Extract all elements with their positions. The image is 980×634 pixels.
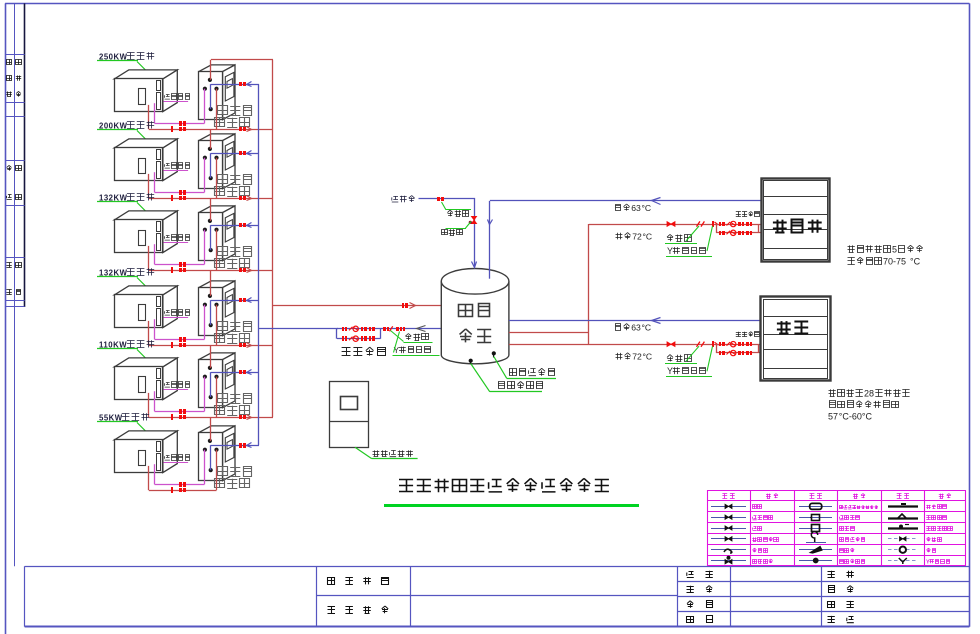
svg-text:72: 72 (632, 232, 642, 242)
valve cold feed unit 1 (239, 82, 246, 86)
pipe cold feed unit 5 (211, 372, 259, 374)
heat recovery label unit 1 (215, 106, 252, 128)
pump label oven (736, 332, 760, 337)
svg-text:63: 63 (631, 203, 641, 213)
ports unit 4 (203, 294, 219, 327)
compressor 200KW unit 2 (114, 139, 177, 181)
svg-text:Y: Y (667, 366, 673, 376)
legend symbol col5 row3 (888, 525, 918, 529)
pump label (342, 347, 386, 356)
arrow return oven (652, 318, 661, 324)
legend symbol col3 row1 (799, 503, 832, 509)
pipe compressor red drop unit 6 (148, 466, 150, 490)
supply temp label mwj (616, 232, 653, 242)
svg-text:57: 57 (828, 412, 838, 422)
pipe compressor red drop unit 5 (148, 393, 150, 417)
pipe makeup water (419, 199, 475, 267)
arrow cold feed unit 3 (247, 223, 252, 228)
arrow hot trunk unit 3 (247, 268, 252, 273)
legend symbol col1 row6 (711, 556, 746, 564)
valve hot trunk unit 4 (239, 343, 246, 347)
manual valve pump line (383, 326, 405, 331)
pipe hot line unit 4 (149, 345, 273, 347)
pipe cold drop unit 2 (210, 153, 212, 178)
valve oil line unit 2 (179, 190, 186, 195)
legend symbol col3 row5 (799, 546, 832, 553)
pipe oil riser unit 4 (204, 305, 206, 340)
legend name col4 row6 (840, 559, 865, 564)
sidebar text cell B (7, 165, 22, 199)
manual valve oven (697, 342, 705, 347)
pump lower oven (719, 350, 752, 355)
title block label 校对 (687, 601, 713, 608)
heat recovery unit 1 (199, 65, 236, 120)
pump lower mwj (719, 230, 752, 235)
arrow cold feed unit 5 (247, 370, 252, 375)
legend name col6 row4 (927, 537, 942, 541)
pipe cold feed unit 3 (211, 225, 259, 227)
legend symbol col5 row5 (888, 547, 918, 553)
moulding machine label (773, 220, 822, 233)
legend symbol col5 row2 (888, 514, 918, 519)
pipe compressor oil drop unit 5 (154, 391, 156, 411)
pipe cold trunk vertical (258, 84, 260, 445)
heat recovery label unit 3 (215, 247, 252, 269)
pipe hot line unit 5 (149, 417, 273, 419)
oven note (828, 389, 910, 422)
title block label 比例 (828, 601, 854, 608)
supply temp label oven (616, 352, 653, 362)
svg-text:28: 28 (864, 389, 874, 399)
compressor 250KW unit 1 (114, 70, 177, 112)
pipe hot drop unit 6 (216, 450, 218, 490)
heat recovery label unit 4 (215, 322, 252, 344)
pipe hot riser unit 2 (210, 129, 212, 149)
pipe oil line unit 4 (155, 339, 205, 341)
return temp label mwj (615, 203, 651, 213)
y strainer label oven (666, 346, 713, 376)
title block label 页数 (828, 586, 853, 593)
valve hot line unit 2 (171, 195, 186, 201)
pipe pump loop mwj (716, 224, 761, 233)
pipe hot trunk top corner (211, 59, 273, 61)
pipe return mwj (490, 200, 761, 202)
pipe oil line unit 6 (155, 484, 205, 486)
valve cold feed unit 2 (239, 151, 246, 155)
pipe pump suction (259, 328, 338, 330)
control cabinet label (355, 447, 418, 458)
legend symbol col1 row3 (711, 526, 746, 530)
compressor label 132KW unit 4 (97, 268, 154, 290)
main title underline (384, 504, 639, 507)
heat recovery label unit 2 (215, 175, 252, 197)
ports unit 5 (203, 366, 219, 399)
valve cold feed unit 3 (239, 223, 246, 227)
pipe cold feed unit 2 (211, 153, 259, 155)
legend name col4 row5 (840, 548, 855, 552)
pipe oil riser unit 2 (204, 158, 206, 193)
pipe oil line unit 2 (155, 192, 205, 194)
svg-text:°C: °C (643, 232, 653, 242)
pipe cold feed unit 6 (211, 445, 259, 447)
pipe compressor red drop unit 4 (148, 321, 150, 345)
valve oil line unit 4 (179, 337, 186, 342)
legend name col2 row3 (753, 527, 763, 531)
valve cold feed unit 5 (239, 370, 246, 374)
y strainer label mwj (666, 226, 713, 257)
compressor label 200KW unit 2 (97, 121, 154, 143)
svg-text:°C: °C (910, 257, 921, 267)
legend name col6 row2 (926, 516, 946, 520)
pump upper mwj (719, 221, 752, 226)
legend name col6 row1 (926, 505, 946, 510)
pipe hot to tank (273, 305, 441, 307)
sidebar text cell C (6, 263, 21, 295)
svg-text:°C: °C (642, 203, 652, 213)
pipe oil riser unit 3 (204, 230, 206, 265)
pipe compressor red drop unit 1 (148, 105, 150, 129)
legend symbol col5 row4 (888, 537, 918, 541)
title block label 绘图 (687, 571, 713, 578)
temperature sensor (469, 359, 542, 392)
pipe compressor oil drop unit 1 (154, 103, 156, 123)
main title (399, 478, 609, 492)
legend name col4 row4 (839, 537, 865, 541)
manual valve label near tank (391, 331, 433, 343)
legend symbol col3 row4 (806, 532, 826, 543)
temperature sensor label (498, 382, 543, 389)
valve hot trunk unit 1 (239, 127, 246, 131)
pipe pump to tank (380, 328, 441, 330)
heat recovery label unit 5 (215, 394, 252, 416)
pipe compressor oil drop unit 3 (154, 244, 156, 264)
pipe compressor oil drop unit 6 (154, 464, 156, 484)
y strainer label near tank (393, 332, 440, 356)
valve supply oven (667, 342, 675, 347)
pipe oil riser unit 5 (204, 377, 206, 412)
pipe hot line unit 1 (149, 129, 273, 131)
heat recovery unit 5 (199, 353, 236, 408)
legend name col6 row5 (927, 548, 936, 552)
valve cold feed unit 4 (239, 298, 246, 302)
pump circulation upper (342, 326, 375, 331)
legend header (722, 494, 951, 499)
pipe cold feed unit 4 (211, 300, 259, 302)
pipe oil riser unit 1 (204, 89, 206, 124)
pipe supply tank to mwj (509, 332, 589, 334)
pipe return drop into tank (489, 201, 491, 279)
arrow pump to tank (417, 326, 426, 332)
valve makeup manual (437, 197, 444, 201)
legend symbol col1 row2 (711, 515, 746, 519)
arrow cold feed unit 1 (247, 82, 252, 87)
manual valve mwj (697, 221, 705, 226)
legend name col2 row4 (752, 537, 778, 541)
valve makeup electric (469, 216, 477, 224)
pipe cold drop unit 3 (210, 225, 212, 250)
sidebar text cell A (6, 60, 21, 97)
ports unit 1 (203, 78, 219, 111)
title block label 图号 (828, 571, 854, 578)
pipe compressor oil drop unit 2 (154, 172, 156, 192)
svg-text:Y: Y (926, 559, 930, 565)
arrow hot trunk unit 2 (247, 196, 252, 201)
valve hot trunk unit 3 (239, 268, 246, 272)
pipe oil riser unit 6 (204, 450, 206, 485)
legend name col2 row5 (753, 548, 768, 552)
valve hot line unit 4 (171, 342, 186, 348)
pipe compressor oil drop unit 4 (154, 319, 156, 339)
pipe hot drop unit 5 (216, 377, 218, 417)
oil cooler label unit 3 (163, 235, 189, 243)
legend symbol col1 row5 (711, 549, 746, 553)
title block label 审核 (687, 616, 713, 623)
manual valve label oven (665, 346, 699, 363)
ports unit 6 (203, 439, 219, 472)
pipe oil line unit 1 (155, 123, 205, 125)
legend symbol col1 row1 (711, 504, 746, 508)
pipe cold drop unit 6 (210, 445, 212, 470)
pipe hot trunk vertical (272, 60, 274, 417)
heat recovery label unit 6 (215, 467, 252, 489)
oven label (777, 321, 808, 334)
valve oil line unit 5 (179, 409, 186, 414)
sidebar dark line (24, 3, 26, 626)
svg-text:5: 5 (892, 245, 897, 255)
pipe supply mwj (589, 224, 716, 226)
valve hot trunk unit 5 (239, 415, 246, 419)
y strainer mwj (712, 221, 719, 227)
pipe supply riser mwj (588, 224, 590, 344)
pipe hot drop unit 4 (216, 305, 218, 345)
svg-text:°C: °C (643, 352, 653, 362)
pipe pump loop oven (716, 344, 761, 353)
pipe hot drop unit 2 (216, 158, 218, 198)
legend name col2 row6 (752, 559, 772, 564)
pipe oil line unit 3 (155, 264, 205, 266)
compressor label 110KW unit 5 (97, 340, 154, 362)
arrow makeup into tank (472, 262, 477, 268)
compressor 132KW unit 4 (114, 286, 177, 328)
title block label tuzhimingcheng (328, 606, 389, 614)
svg-text:63: 63 (631, 323, 641, 333)
heat recovery unit 2 (199, 134, 236, 189)
ports unit 3 (203, 219, 219, 252)
title block grid (25, 566, 970, 626)
level transmitter label (509, 368, 554, 375)
heat recovery unit 6 (199, 426, 236, 481)
oven box (761, 297, 831, 381)
svg-text:72: 72 (632, 352, 642, 362)
manual valve label mwj (665, 226, 699, 244)
pipe hot line unit 6 (149, 490, 217, 492)
compressor 132KW unit 3 (114, 211, 177, 253)
pump circulation lower (342, 336, 375, 341)
arrow hot trunk unit 4 (247, 343, 252, 348)
arrow cold feed unit 6 (247, 443, 252, 448)
valve hot to tank (402, 303, 408, 308)
legend symbol col5 row6 (888, 558, 918, 564)
pipe pump loop (337, 329, 381, 339)
oil cooler label unit 1 (163, 94, 189, 102)
tank label (459, 304, 492, 343)
valve oil line unit 1 (179, 121, 186, 126)
makeup water label (392, 196, 415, 203)
pipe supply oven (509, 344, 716, 346)
ports unit 2 (203, 147, 219, 180)
moulding machine note (848, 245, 923, 267)
manual valve label makeup (442, 202, 472, 217)
return temp label oven (615, 323, 651, 333)
legend symbol col3 row2 (799, 515, 832, 521)
valve hot line unit 6 (171, 487, 186, 493)
svg-text:°C: °C (642, 323, 652, 333)
pipe hot riser unit 5 (210, 345, 212, 368)
pipe cold drop unit 4 (210, 300, 212, 325)
legend name col4 row2 (840, 516, 860, 520)
arrow return mwj (652, 198, 661, 205)
pipe hot drop unit 1 (216, 89, 218, 129)
pipe cold drop unit 5 (210, 372, 212, 397)
pipe hot riser unit 1 (210, 60, 212, 80)
compressor 55KW unit 6 (114, 431, 177, 473)
control cabinet (329, 382, 369, 448)
arrow cold feed unit 4 (247, 298, 252, 303)
pipe hot riser unit 6 (210, 417, 212, 441)
svg-text:Y: Y (667, 246, 673, 256)
tank baowen shuixiang (441, 269, 509, 364)
arrow hot trunk unit 1 (247, 127, 252, 132)
pipe hot line unit 3 (149, 270, 273, 272)
legend name col4 row1 (839, 506, 878, 510)
title block label jianshedanwei (328, 577, 389, 584)
compressor label 132KW unit 3 (97, 193, 154, 215)
pipe cold feed unit 1 (211, 84, 259, 86)
legend name col2 row1 (752, 505, 762, 509)
oil cooler label unit 4 (163, 310, 189, 318)
y strainer oven (712, 341, 719, 347)
pipe cold drop unit 1 (210, 84, 212, 109)
electric valve label (441, 222, 471, 236)
pump label mwj (736, 212, 760, 217)
moulding machine box (762, 179, 830, 262)
title block label 日期 (828, 616, 854, 623)
legend symbol col3 row6 (799, 558, 832, 564)
sidebar inner line (14, 3, 16, 566)
oil cooler label unit 5 (163, 382, 189, 390)
pipe compressor red drop unit 3 (148, 246, 150, 270)
pump upper oven (719, 342, 752, 347)
valve supply mwj (667, 222, 675, 227)
pipe hot riser unit 3 (210, 198, 212, 221)
valve cold feed unit 6 (239, 443, 246, 448)
pipe compressor red drop unit 2 (148, 174, 150, 198)
valve hot trunk unit 2 (239, 196, 246, 200)
title block label 设计 (687, 586, 713, 593)
pipe hot riser unit 4 (210, 270, 212, 296)
legend symbol col3 row3 (799, 525, 832, 532)
level transmitter (492, 351, 556, 378)
pipe oil line unit 5 (155, 411, 205, 413)
compressor 110KW unit 5 (114, 358, 177, 400)
heat recovery unit 3 (199, 206, 236, 261)
compressor label 55KW unit 6 (97, 413, 150, 435)
legend name col2 row2 (753, 516, 773, 520)
pipe hot drop unit 3 (216, 230, 218, 270)
sidebar cell lines (5, 55, 25, 307)
arrow hot to tank (410, 303, 416, 309)
legend name col6 row6 (926, 559, 950, 565)
compressor label 250KW unit 1 (97, 52, 154, 74)
valve oil line unit 3 (179, 262, 186, 267)
svg-text:70-75: 70-75 (883, 257, 906, 267)
valve hot line unit 1 (171, 126, 186, 132)
legend symbol col5 row1 (888, 503, 918, 507)
legend table grid (707, 490, 966, 566)
valve hot line unit 5 (171, 414, 186, 420)
oil cooler label unit 6 (163, 455, 189, 463)
arrow return drop (488, 220, 493, 225)
heat recovery unit 4 (199, 281, 236, 336)
oil cooler label unit 2 (163, 163, 189, 171)
legend symbol col1 row4 (711, 537, 746, 541)
legend name col4 row3 (839, 527, 854, 531)
valve hot line unit 3 (171, 267, 186, 273)
arrow hot trunk unit 5 (247, 415, 252, 420)
pipe return oven (509, 320, 761, 322)
arrow cold feed unit 2 (247, 151, 252, 156)
pipe hot line unit 2 (149, 198, 273, 200)
legend name col6 row3 (926, 527, 952, 531)
svg-text:°C-60°C: °C-60°C (839, 412, 873, 422)
valve oil line unit 6 (179, 482, 186, 487)
